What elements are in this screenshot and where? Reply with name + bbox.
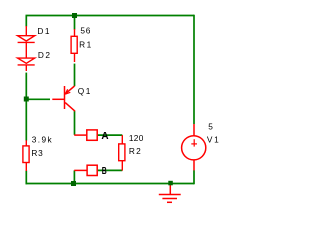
svg-text:120: 120 [129,133,144,143]
wire V1 bottom to rail [193,170,195,184]
wire jumper B to bottom rail [73,170,75,182]
wire left column top to D1 [25,16,27,27]
wire diode column to base node [25,73,27,98]
node junction top rail / R1 [72,13,77,18]
svg-text:56: 56 [80,26,91,36]
transistor Q1 [52,86,75,111]
svg-text:B: B [102,166,107,177]
wire jumper A to R2 [98,134,123,136]
wire top rail [26,15,195,17]
jumper B [74,165,97,175]
voltage source V1 [182,124,206,170]
svg-text:R2: R2 [129,146,142,156]
diode D1 [18,26,35,50]
wire R1 to Q1 emitter [74,64,76,87]
node junction ground [168,181,173,186]
svg-text:R3: R3 [31,148,43,158]
diode D2 [18,50,35,71]
svg-text:A: A [101,130,109,142]
wire base node to Q1 base [27,98,50,100]
svg-text:R1: R1 [79,40,93,50]
wire bottom rail [26,183,195,185]
jumper A [74,130,97,140]
svg-text:3.9k: 3.9k [32,135,53,145]
svg-text:V1: V1 [207,135,221,145]
resistor R1 [71,29,77,62]
svg-text:D1: D1 [37,26,51,36]
svg-text:Q1: Q1 [78,86,92,96]
wire R2 bottom to jumper B [98,169,123,171]
wire R3 to bottom rail [25,171,27,185]
wire top junction to R1 [74,16,76,30]
svg-text:D2: D2 [38,50,52,60]
wire right rail [193,15,195,124]
resistor R3 [23,140,29,171]
wire base node to R3 [25,100,27,141]
node junction diodes / base / R3 [24,97,29,102]
wire Q1 collector down to A [74,111,76,135]
resistor R2 [119,135,125,171]
node junction bottom rail / B branch [71,181,76,186]
ground [159,185,181,202]
svg-text:5: 5 [208,122,213,132]
